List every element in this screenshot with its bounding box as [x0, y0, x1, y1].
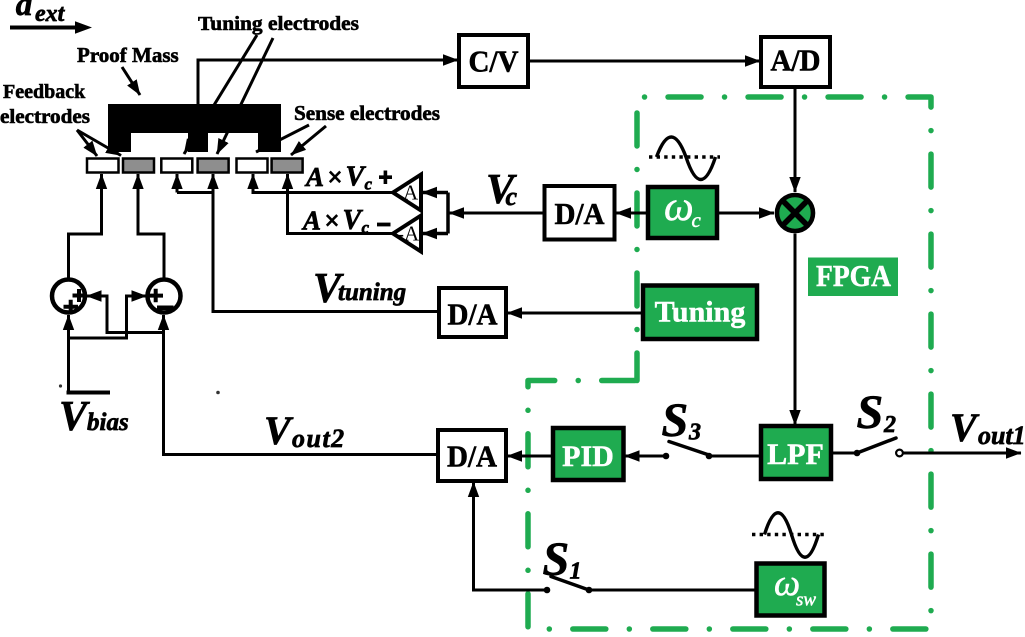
svg-text:out1: out1 [978, 421, 1025, 450]
svg-text:Tuning electrodes: Tuning electrodes [198, 13, 359, 35]
svg-text:out2: out2 [292, 424, 346, 453]
svg-text:S: S [857, 386, 884, 439]
svg-text:V: V [346, 162, 367, 193]
svg-text:×: × [327, 162, 342, 192]
svg-text:V: V [59, 394, 90, 440]
svg-text:Feedback: Feedback [3, 81, 86, 103]
svg-text:×: × [324, 206, 339, 236]
svg-text:LPF: LPF [767, 438, 824, 471]
svg-text:V: V [950, 405, 980, 450]
svg-text:D/A: D/A [448, 297, 499, 332]
svg-text:S: S [662, 394, 689, 447]
svg-text:D/A: D/A [447, 439, 498, 474]
svg-text:3: 3 [688, 420, 701, 446]
svg-text:bias: bias [87, 409, 129, 436]
svg-text:ext: ext [35, 1, 66, 27]
svg-text:Sense electrodes: Sense electrodes [294, 101, 440, 125]
svg-text:c: c [506, 182, 518, 211]
svg-text:c: c [365, 175, 373, 194]
svg-text:D/A: D/A [555, 196, 606, 231]
svg-text:V: V [343, 205, 364, 236]
svg-text:S: S [543, 533, 570, 586]
svg-text:tuning: tuning [338, 279, 406, 306]
svg-text:C/V: C/V [469, 44, 520, 79]
svg-text:sw: sw [796, 590, 816, 611]
svg-text:A/D: A/D [771, 43, 821, 78]
svg-text:electrodes: electrodes [0, 106, 90, 128]
svg-text:Tuning: Tuning [655, 296, 746, 329]
svg-text:-A: -A [397, 222, 420, 246]
svg-text:V: V [264, 408, 294, 453]
svg-text:A: A [301, 206, 321, 236]
svg-text:A: A [304, 162, 324, 192]
svg-text:c: c [362, 218, 370, 237]
svg-text:PID: PID [562, 440, 614, 473]
svg-text:ω: ω [664, 184, 694, 230]
svg-text:1: 1 [570, 559, 582, 585]
svg-text:c: c [692, 208, 702, 232]
svg-text:FPGA: FPGA [816, 258, 892, 293]
svg-text:Proof Mass: Proof Mass [77, 43, 179, 67]
svg-text:2: 2 [883, 412, 896, 438]
svg-text:A: A [403, 181, 419, 205]
svg-text:a: a [16, 0, 33, 23]
